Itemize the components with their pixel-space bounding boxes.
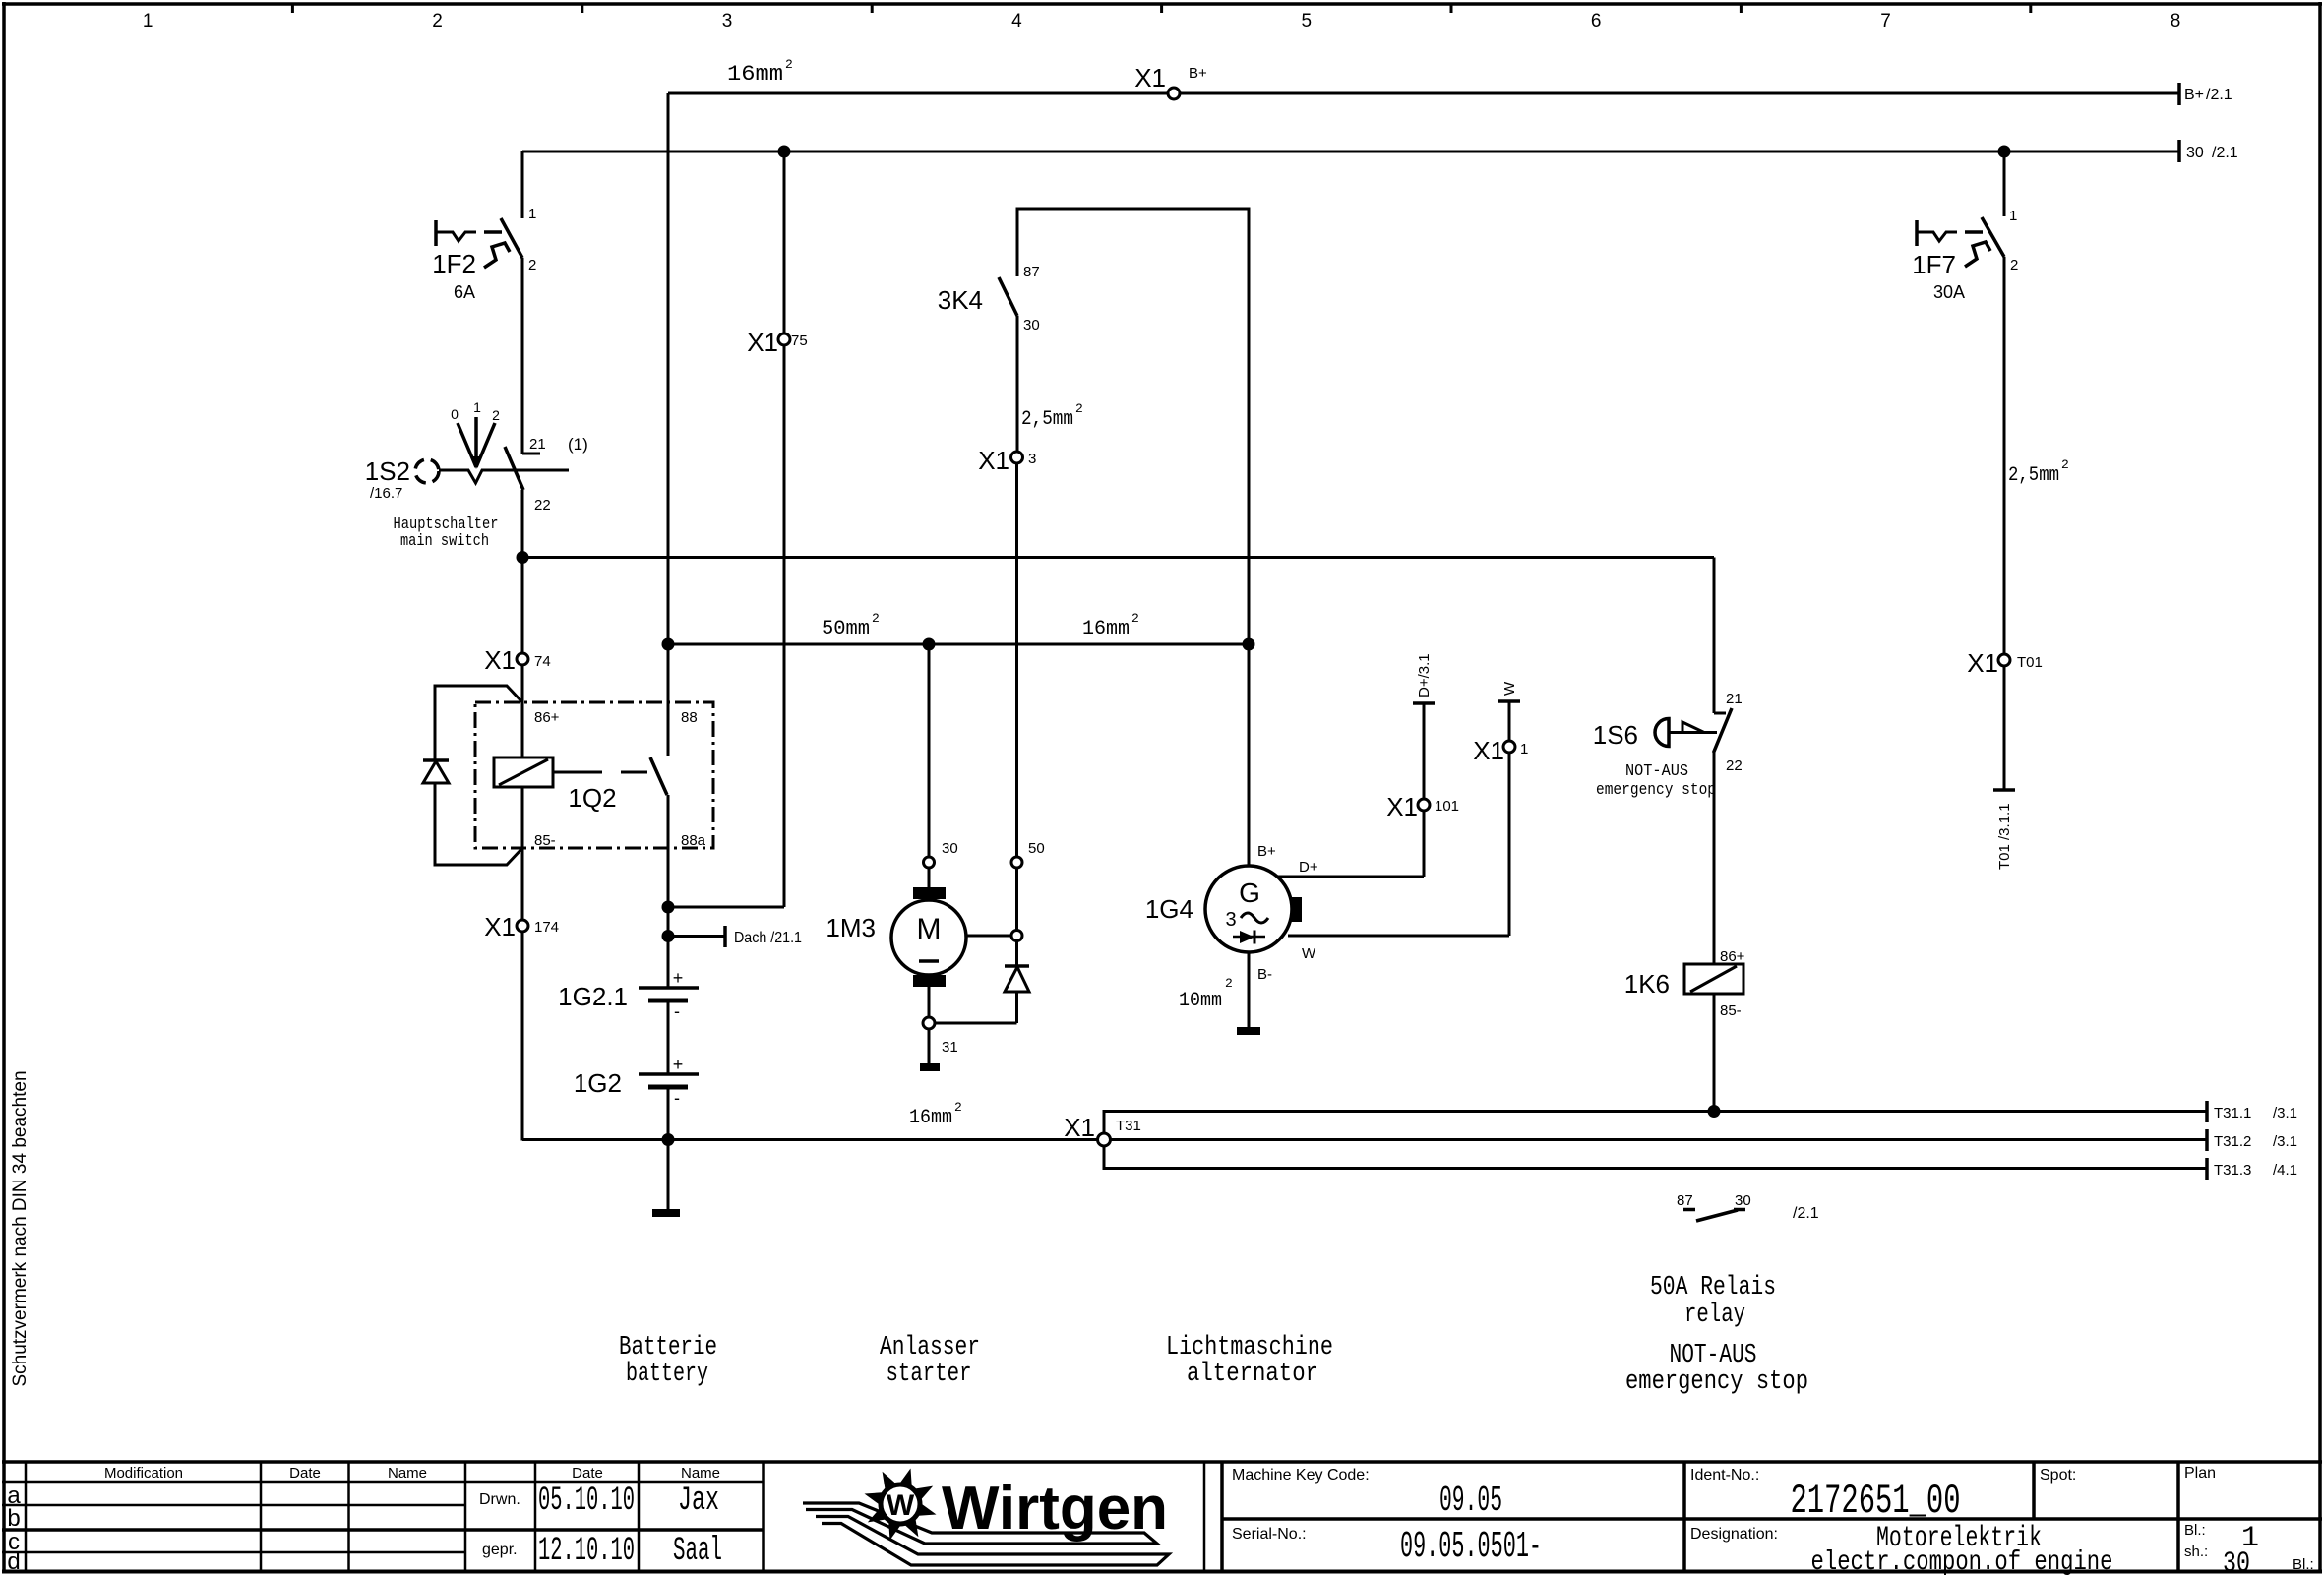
terminal 1M3:31	[923, 1017, 958, 1056]
svg-text:Name: Name	[681, 1465, 720, 1482]
svg-text:Saal: Saal	[673, 1533, 722, 1570]
svg-text:09.05.0501-: 09.05.0501-	[1400, 1526, 1542, 1568]
diode starter	[1005, 941, 1029, 1024]
svg-text:86+: 86+	[1720, 948, 1745, 965]
wire starter feed drop	[928, 644, 931, 857]
svg-text:09.05: 09.05	[1439, 1481, 1502, 1521]
circuit breaker 1F2	[432, 206, 536, 302]
caption battery	[619, 1333, 717, 1389]
svg-text:12.10.10: 12.10.10	[538, 1533, 635, 1570]
svg-text:2,5mm: 2,5mm	[1021, 408, 1073, 431]
svg-text:0: 0	[451, 406, 459, 422]
svg-text:88: 88	[681, 709, 698, 726]
svg-text:1G2: 1G2	[574, 1068, 622, 1098]
svg-text:2: 2	[2010, 257, 2018, 273]
wire X1:74 to 1Q2 coil	[521, 665, 524, 757]
title field Machine Key Code	[1232, 1467, 1502, 1521]
ground starter	[920, 1029, 940, 1071]
svg-text:W: W	[1302, 945, 1316, 962]
title field Ident-No	[1690, 1467, 1961, 1525]
svg-text:30: 30	[1023, 317, 1040, 333]
svg-text:W: W	[887, 1489, 915, 1522]
svg-text:Dach /21.1: Dach /21.1	[734, 930, 802, 946]
wire 1S2 to junction	[521, 490, 524, 558]
svg-text:X1: X1	[978, 446, 1009, 475]
junction T31.1	[1708, 1105, 1721, 1118]
column numbers	[143, 11, 2180, 31]
svg-text:X1: X1	[484, 912, 516, 941]
wire T31.1	[1104, 1112, 2207, 1134]
svg-text:W: W	[1501, 681, 1518, 696]
svg-text:7: 7	[1880, 11, 1891, 31]
svg-text:87: 87	[1023, 264, 1040, 280]
svg-text:10mm: 10mm	[1179, 990, 1222, 1012]
svg-text:5: 5	[1302, 11, 1313, 31]
svg-text:21: 21	[529, 436, 546, 453]
wire 1M3 bottom	[928, 987, 931, 1017]
svg-text:85-: 85-	[1720, 1002, 1742, 1019]
svg-text:/2.1: /2.1	[2212, 145, 2238, 161]
wire X1:1 up	[1508, 702, 1511, 741]
svg-text:1M3: 1M3	[826, 913, 876, 942]
wire W	[1288, 753, 1509, 962]
svg-text:(1): (1)	[568, 435, 588, 454]
wire X1:75 drop	[783, 151, 786, 907]
terminal B+/2.1	[2179, 83, 2232, 105]
svg-text:Spot:: Spot:	[2040, 1467, 2076, 1484]
motor 1M3 (starter)	[826, 868, 966, 987]
wire 1G4 B- ground	[1179, 952, 1249, 1027]
svg-text:X1: X1	[747, 328, 778, 357]
svg-text:main switch: main switch	[400, 532, 489, 551]
svg-text:1G2.1: 1G2.1	[558, 982, 628, 1011]
svg-text:2,5mm: 2,5mm	[2008, 464, 2059, 487]
svg-text:T31.3: T31.3	[2214, 1162, 2251, 1179]
relay 1K6	[1624, 948, 1745, 1019]
svg-text:2172651_00: 2172651_00	[1791, 1478, 1961, 1525]
svg-text:1Q2: 1Q2	[568, 783, 616, 813]
svg-text:6: 6	[1591, 11, 1602, 31]
terminal X1:74	[484, 645, 551, 675]
svg-text:T31: T31	[1116, 1118, 1141, 1134]
svg-text:battery: battery	[626, 1360, 708, 1389]
svg-text:X1: X1	[1386, 792, 1418, 821]
svg-text:1K6: 1K6	[1624, 969, 1670, 999]
terminal T31.1/3.1	[2207, 1101, 2297, 1122]
title field sheet numbers	[2184, 1522, 2314, 1575]
wire 3K4 to X1:3	[1017, 316, 1083, 452]
terminal W/3.1	[1498, 681, 1520, 701]
terminal X1:101	[1386, 792, 1459, 821]
ground alternator	[1237, 1027, 1260, 1035]
svg-text:2: 2	[785, 57, 793, 72]
terminal X1:1	[1473, 736, 1528, 765]
svg-text:NOT-AUS: NOT-AUS	[1625, 762, 1688, 781]
wire X1:3 to starter 50	[1015, 463, 1018, 857]
title block headers	[7, 1465, 720, 1575]
wire 1F2 feed	[521, 151, 524, 218]
svg-text:/3.1: /3.1	[2273, 1105, 2297, 1121]
terminal X1:174	[484, 912, 559, 941]
svg-text:16mm: 16mm	[727, 62, 783, 87]
title field Designation	[1690, 1522, 2113, 1575]
svg-text:3K4: 3K4	[938, 285, 983, 315]
svg-text:X1: X1	[1473, 736, 1504, 765]
svg-text:4: 4	[1011, 11, 1022, 31]
title block drawn row	[479, 1483, 719, 1520]
svg-text:16mm: 16mm	[909, 1107, 952, 1129]
svg-text:2: 2	[1131, 611, 1139, 626]
svg-text:Date: Date	[572, 1465, 603, 1482]
svg-text:B+: B+	[1257, 843, 1276, 860]
svg-text:1: 1	[2009, 208, 2017, 224]
caption emergency stop	[1625, 1341, 1808, 1397]
terminal D+/3.1	[1413, 653, 1435, 703]
title block checked row	[482, 1533, 722, 1570]
svg-text:d: d	[7, 1548, 20, 1575]
wire 1M3 to 50 branch	[966, 935, 1011, 938]
svg-text:/2.1: /2.1	[2206, 87, 2232, 103]
svg-text:1S2: 1S2	[365, 456, 410, 486]
wire 1F7 feed	[2003, 151, 2006, 216]
svg-text:-: -	[674, 1088, 680, 1108]
svg-text:85-: 85-	[534, 832, 556, 849]
wire 1Q2 coil to X1:174	[521, 787, 524, 920]
terminal T31.3/4.1	[2207, 1158, 2297, 1180]
svg-text:Jax: Jax	[678, 1483, 719, 1520]
svg-text:3: 3	[1225, 909, 1236, 931]
wire 1S6 to 1K6	[1713, 751, 1716, 964]
terminal X1:B+	[1134, 63, 1207, 99]
svg-text:88a: 88a	[681, 832, 706, 849]
contact reference 87/30 /2.1	[1677, 1192, 1819, 1222]
svg-text:/2.1: /2.1	[1793, 1205, 1819, 1222]
title field Serial-No	[1232, 1526, 1542, 1568]
svg-text:Designation:: Designation:	[1690, 1526, 1778, 1543]
svg-text:3: 3	[1028, 451, 1036, 467]
svg-text:sh.:: sh.:	[2184, 1544, 2208, 1560]
wire 1F2 to 1S2	[521, 258, 524, 454]
svg-text:05.10.10: 05.10.10	[538, 1483, 635, 1520]
ground battery	[652, 1209, 680, 1217]
svg-text:3: 3	[722, 11, 733, 31]
svg-text:T01: T01	[2017, 654, 2043, 671]
svg-text:Drwn.: Drwn.	[479, 1491, 520, 1508]
circuit breaker 1F7	[1912, 208, 2018, 302]
wire 50mm2 bus	[668, 611, 1249, 644]
svg-text:B+: B+	[1189, 65, 1207, 82]
junction starter feed	[923, 638, 936, 651]
svg-text:Serial-No.:: Serial-No.:	[1232, 1526, 1307, 1543]
wire 3K4 bracket	[1017, 209, 1249, 644]
svg-text:101: 101	[1435, 798, 1459, 815]
terminal X1:3	[978, 446, 1036, 475]
wire X1:174 to ground bus	[521, 932, 524, 1141]
svg-text:gepr.: gepr.	[482, 1542, 518, 1558]
svg-text:Machine Key Code:: Machine Key Code:	[1232, 1467, 1370, 1484]
caption starter	[880, 1333, 980, 1389]
wire X1:T01 down	[2003, 666, 2006, 790]
wire 1S6 feed	[1713, 558, 1716, 714]
svg-text:2: 2	[492, 407, 500, 423]
svg-text:-: -	[674, 1001, 680, 1021]
terminal X1:75	[747, 328, 808, 357]
wire B+ rail	[668, 92, 2179, 95]
svg-text:8: 8	[2171, 11, 2181, 31]
wire to X1:74	[521, 558, 524, 653]
svg-text:+: +	[673, 968, 684, 988]
svg-text:Modification: Modification	[104, 1465, 183, 1482]
svg-text:2: 2	[872, 611, 880, 626]
wire D+	[1277, 811, 1424, 877]
title block grid	[2, 1462, 2322, 1572]
battery 1G2.1	[558, 968, 699, 1021]
svg-text:87: 87	[1677, 1192, 1693, 1209]
svg-text:Lichtmaschine: Lichtmaschine	[1166, 1333, 1333, 1363]
switch 1S6 (NOT-AUS)	[1593, 691, 1743, 800]
svg-text:1S6: 1S6	[1593, 720, 1638, 750]
switch 3K4	[938, 264, 1040, 333]
relay 1Q2	[423, 686, 713, 865]
svg-text:/3.1: /3.1	[2273, 1133, 2297, 1150]
svg-text:22: 22	[1726, 757, 1743, 774]
svg-text:NOT-AUS: NOT-AUS	[1670, 1341, 1757, 1370]
svg-text:emergency stop: emergency stop	[1596, 781, 1716, 800]
terminal 1M3 right	[1011, 931, 1022, 941]
svg-text:50mm: 50mm	[822, 618, 870, 640]
svg-text:Bl.:: Bl.:	[2293, 1556, 2314, 1573]
wire 30 rail	[522, 151, 2179, 153]
junction 1S2/feed	[517, 551, 529, 564]
svg-text:G: G	[1239, 878, 1260, 908]
terminal X1:T01	[1967, 648, 2043, 678]
svg-text:X1: X1	[1064, 1113, 1095, 1142]
svg-text:86+: 86+	[534, 709, 560, 726]
svg-text:50A Relais: 50A Relais	[1650, 1273, 1776, 1302]
svg-text:B-: B-	[1257, 966, 1272, 983]
svg-text:30: 30	[942, 840, 958, 857]
svg-text:2: 2	[528, 257, 536, 273]
svg-text:/16.7: /16.7	[370, 485, 402, 502]
terminal 1M3:30	[924, 840, 958, 868]
svg-text:22: 22	[534, 497, 551, 514]
alternator 1G4	[1145, 843, 1302, 983]
junction 16mm2 bus left	[662, 638, 675, 651]
wire 16mm2 B+ drop	[668, 57, 793, 756]
terminal X1:T31	[1064, 1113, 1141, 1146]
svg-text:Wirtgen: Wirtgen	[942, 1475, 1168, 1543]
svg-text:starter: starter	[887, 1360, 972, 1389]
svg-text:1G4: 1G4	[1145, 894, 1193, 924]
column ticks	[292, 4, 2030, 13]
svg-text:alternator: alternator	[1187, 1360, 1318, 1389]
svg-text:30: 30	[2186, 145, 2204, 161]
svg-text:30: 30	[1735, 1192, 1751, 1209]
svg-text:D+: D+	[1299, 859, 1318, 876]
svg-text:X1: X1	[1134, 63, 1166, 92]
caption alternator	[1166, 1333, 1333, 1389]
caption relay	[1650, 1273, 1776, 1330]
svg-text:30A: 30A	[1933, 282, 1965, 302]
wire 1G2.1 to 1G2	[667, 1000, 670, 1074]
svg-text:B+: B+	[2184, 87, 2204, 103]
wire alternator B+ drop	[1248, 644, 1251, 866]
logo Wirtgen	[803, 1469, 1169, 1566]
junction battery top	[662, 901, 675, 914]
svg-text:1: 1	[1520, 741, 1528, 757]
svg-text:T01 /3.1.1: T01 /3.1.1	[1996, 803, 2013, 870]
wire 1F7 to X1:T01	[2004, 257, 2069, 654]
svg-text:50: 50	[1028, 840, 1045, 857]
wire 50 branch to diode	[1015, 868, 1018, 931]
svg-text:74: 74	[534, 653, 551, 670]
wire X1:101 up	[1423, 704, 1426, 799]
svg-text:31: 31	[942, 1039, 958, 1056]
terminal T01/3.1.1	[1993, 790, 2015, 870]
wire 1G2 to ground	[667, 1087, 670, 1209]
svg-text:T31.1: T31.1	[2214, 1105, 2251, 1121]
wire diode to 1M3:31	[935, 1022, 1017, 1025]
svg-text:Plan: Plan	[2184, 1465, 2216, 1482]
svg-text:emergency stop: emergency stop	[1625, 1367, 1808, 1397]
terminal 30/2.1	[2179, 140, 2238, 162]
svg-text:D+/3.1: D+/3.1	[1416, 653, 1433, 697]
svg-text:2: 2	[954, 1100, 962, 1115]
junction ground bus	[662, 1133, 675, 1146]
svg-text:2: 2	[1225, 976, 1233, 991]
svg-text:6A: 6A	[454, 282, 475, 302]
svg-text:Anlasser: Anlasser	[880, 1333, 980, 1363]
svg-text:/4.1: /4.1	[2273, 1162, 2297, 1179]
wire 1Q2 contact to battery	[667, 795, 670, 988]
svg-text:Name: Name	[388, 1465, 427, 1482]
svg-text:Bl.:: Bl.:	[2184, 1522, 2206, 1539]
battery 1G2	[574, 1055, 699, 1108]
wire T31.2	[1111, 1138, 2208, 1141]
junction 30-rail/X1:75	[778, 146, 791, 158]
svg-text:T31.2: T31.2	[2214, 1133, 2251, 1150]
svg-text:+: +	[673, 1055, 684, 1074]
svg-text:21: 21	[1726, 691, 1743, 707]
wire 1K6 to T31.1	[1713, 994, 1716, 1112]
wire ground bus 16mm2	[522, 1100, 1098, 1140]
svg-text:Schutzvermerk nach DIN 34 beac: Schutzvermerk nach DIN 34 beachten	[10, 1070, 31, 1386]
svg-text:30: 30	[2223, 1547, 2250, 1575]
svg-text:1F7: 1F7	[1912, 250, 1956, 279]
svg-text:X1: X1	[484, 645, 516, 675]
svg-text:1: 1	[473, 399, 481, 415]
terminal 1M3:50	[1011, 840, 1045, 868]
svg-text:174: 174	[534, 919, 559, 936]
svg-text:2: 2	[1075, 401, 1083, 416]
svg-text:relay: relay	[1684, 1301, 1745, 1330]
svg-text:X1: X1	[1967, 648, 1998, 678]
svg-text:16mm: 16mm	[1082, 618, 1130, 640]
svg-text:b: b	[7, 1505, 20, 1532]
svg-text:electr.compon.of engine: electr.compon.of engine	[1811, 1547, 2113, 1575]
svg-text:2: 2	[432, 11, 443, 31]
svg-text:1: 1	[143, 11, 153, 31]
svg-text:Ident-No.:: Ident-No.:	[1690, 1467, 1759, 1484]
svg-text:1: 1	[528, 206, 536, 222]
svg-text:M: M	[917, 913, 942, 945]
junction alternator feed	[1243, 638, 1255, 651]
terminal T31.2/3.1	[2207, 1129, 2297, 1151]
svg-text:1F2: 1F2	[432, 249, 476, 278]
switch 1S2 (Hauptschalter)	[365, 399, 588, 551]
svg-text:2: 2	[2061, 457, 2069, 472]
junction 30-rail/1F7	[1998, 146, 2011, 158]
wire switched feed horizontal	[522, 556, 1714, 559]
junction Dach stub	[662, 930, 675, 942]
terminal Dach/21.1	[668, 926, 802, 947]
svg-text:75: 75	[791, 333, 808, 349]
wire X1:75 to battery top	[668, 906, 784, 909]
svg-text:Date: Date	[289, 1465, 321, 1482]
svg-text:Batterie: Batterie	[619, 1333, 717, 1363]
wire T31.3	[1104, 1146, 2207, 1169]
